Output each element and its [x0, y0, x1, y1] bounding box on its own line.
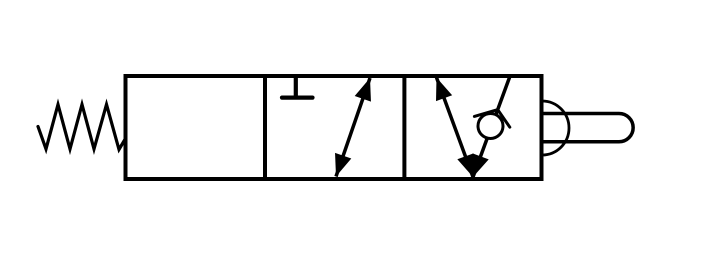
valve body (3-position envelope): [126, 76, 542, 179]
flow path arrow (left, double headed), position 3: [437, 78, 474, 178]
valve seat (V), position 3: [474, 110, 509, 128]
divider between position 2 and 3: [402, 76, 406, 179]
spring (return spring, left side): [38, 105, 126, 150]
divider between position 1 and 2: [263, 76, 267, 179]
flow path arrow (double headed), position 2: [336, 78, 370, 177]
plunger semicircle (actuator interface): [542, 101, 569, 155]
flow path line through ball seat, position 3: [473, 75, 510, 177]
blocked port symbol (T), position 2: [294, 76, 298, 98]
pushbutton (stadium shape): [542, 114, 633, 142]
ball (check valve ball), position 3: [478, 114, 503, 139]
